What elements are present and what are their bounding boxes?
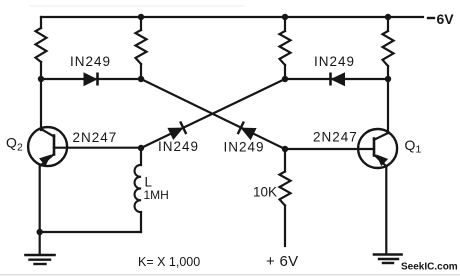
svg-text:K= X 1,000: K= X 1,000 [138, 255, 200, 269]
svg-text:1: 1 [416, 144, 422, 156]
svg-text:10K: 10K [253, 185, 277, 200]
svg-text:Q: Q [405, 137, 416, 153]
svg-text:2N247: 2N247 [313, 130, 358, 145]
svg-text:2: 2 [17, 142, 23, 154]
svg-text:IN249: IN249 [70, 54, 111, 69]
svg-text:2N247: 2N247 [73, 130, 118, 145]
svg-text:SeekIC.com: SeekIC.com [401, 262, 458, 273]
svg-text:IN249: IN249 [224, 140, 265, 155]
svg-text:IN249: IN249 [314, 54, 355, 69]
svg-text:6V: 6V [437, 11, 455, 27]
svg-text:IN249: IN249 [158, 139, 199, 154]
svg-text:+ 6V: + 6V [266, 253, 298, 270]
svg-text:Q: Q [6, 135, 17, 151]
svg-text:1MH: 1MH [144, 188, 169, 202]
